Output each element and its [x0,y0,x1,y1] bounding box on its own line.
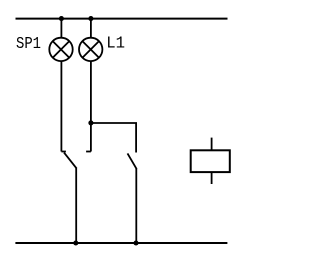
switch S2 blade [128,153,137,168]
lamp SP1 [49,38,72,61]
node junction dot at branch tee [88,120,93,125]
switch S1 changeover left fixed contact tick [61,151,66,153]
lamp L1 [79,38,102,61]
svg-text:L1: L1 [106,35,125,54]
wire branch horizontal to right switch [91,123,136,153]
wire L1 drop from top rail [90,19,92,38]
switch S1 changeover right fixed contact tick [86,151,91,153]
wire SP1 drop from top rail [60,19,62,38]
wire bottom return rail [15,242,227,244]
wire top supply rail [16,18,228,20]
node junction dot bottom rail left [73,240,78,245]
relay coil K1 box [191,150,230,172]
node junction dot at top rail / L1 [88,16,93,21]
wire S2 down to bottom rail [135,168,137,243]
node junction dot at top rail / SP1 [59,16,64,21]
wire SP1 lamp to switch left contact [60,61,62,152]
wire S1 common down to bottom rail [75,168,77,243]
wire relay coil bottom stub [211,172,213,184]
wire L1 lamp down to switch right contact [90,61,92,152]
svg-text:SP1: SP1 [16,35,41,54]
node junction dot bottom rail right [133,240,138,245]
switch S1 blade [64,153,77,169]
wire relay coil top stub [211,138,213,151]
